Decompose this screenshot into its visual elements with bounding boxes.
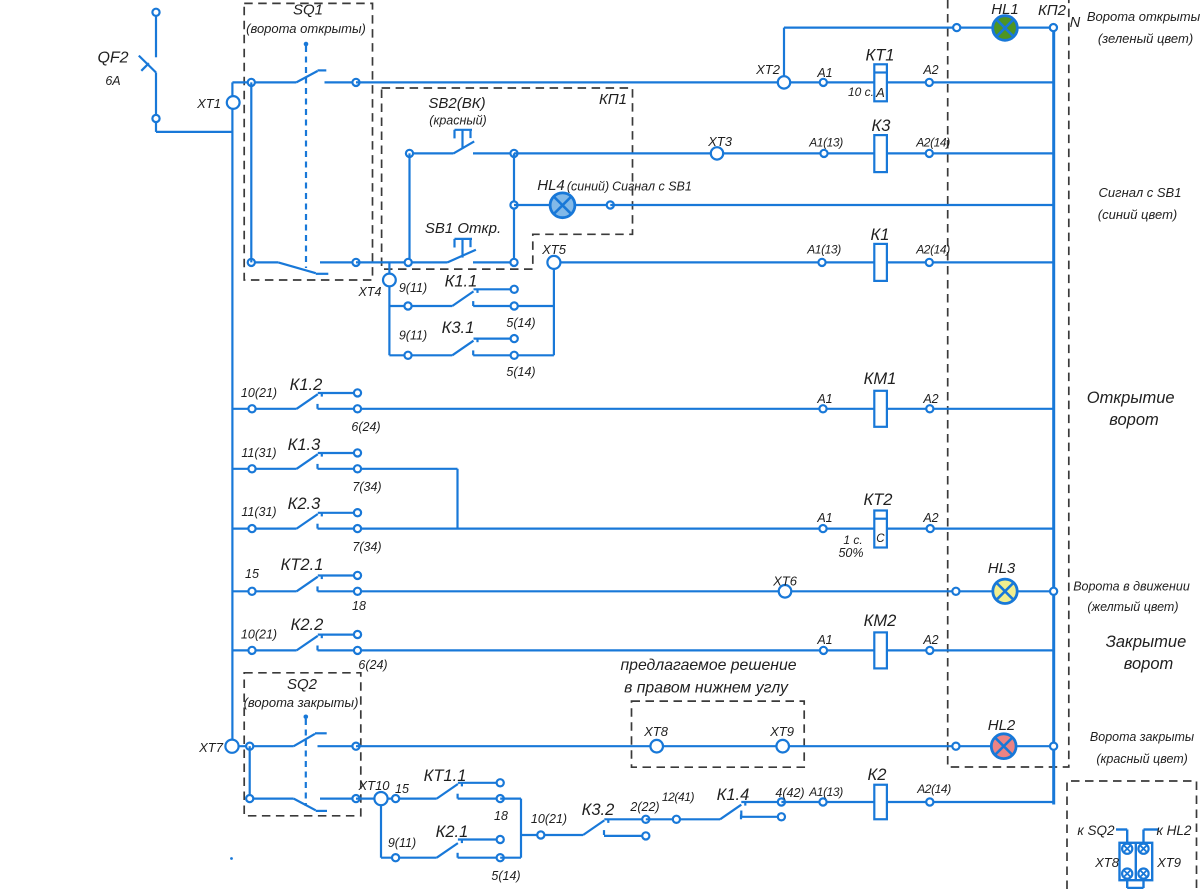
terminal XT7 <box>225 740 238 753</box>
svg-text:5(14): 5(14) <box>506 316 535 330</box>
svg-text:SQ2: SQ2 <box>287 676 318 693</box>
svg-text:(синий): (синий) <box>567 180 609 194</box>
relay coil K1 <box>874 244 887 281</box>
svg-text:К2.2: К2.2 <box>291 616 324 634</box>
svg-text:К2.1: К2.1 <box>436 823 469 841</box>
terminal XT3 <box>711 147 723 159</box>
wire XT5..K1..bus <box>560 261 1053 263</box>
svg-text:КТ1: КТ1 <box>866 47 895 65</box>
svg-text:(ворота открыты): (ворота открыты) <box>246 21 366 36</box>
contactor coil KM2 <box>820 647 827 654</box>
svg-text:A2: A2 <box>922 633 938 647</box>
svg-text:7(34): 7(34) <box>352 480 381 494</box>
svg-text:HL2: HL2 <box>988 717 1016 734</box>
wire XT3..K3..bus <box>723 152 1053 154</box>
wire HL4 to bus <box>610 204 1053 206</box>
svg-text:A2(14): A2(14) <box>915 243 950 257</box>
wire SB2 to XT3 <box>514 152 711 154</box>
svg-text:HL4: HL4 <box>537 177 565 194</box>
wire K1.3 down to row K2.3 <box>456 469 458 529</box>
breaker QF2 <box>155 16 157 57</box>
svg-text:XT9: XT9 <box>1156 855 1181 870</box>
svg-text:(красный цвет): (красный цвет) <box>1096 752 1188 766</box>
svg-text:XT8: XT8 <box>1094 855 1120 870</box>
wire XT9 to HL2 <box>789 745 1054 747</box>
svg-text:XT6: XT6 <box>772 574 798 589</box>
wire K1.4 to K2 coil <box>781 801 1053 803</box>
SQ1 dashed enclosure <box>244 3 372 280</box>
svg-text:6(24): 6(24) <box>351 420 380 434</box>
svg-text:Ворота в движении: Ворота в движении <box>1073 580 1190 594</box>
svg-text:A1(13): A1(13) <box>806 243 841 257</box>
node on bus row8 <box>1050 588 1057 595</box>
svg-text:A2(14): A2(14) <box>915 136 950 150</box>
svg-text:Сигнал с SB1: Сигнал с SB1 <box>612 180 692 194</box>
svg-text:15: 15 <box>395 782 409 796</box>
svg-text:A1: A1 <box>816 392 832 406</box>
wire row1 to XT2 <box>356 81 778 83</box>
svg-text:к HL2: к HL2 <box>1157 823 1192 838</box>
svg-text:К3.2: К3.2 <box>582 801 615 819</box>
wire XT4 branch to K1.1 <box>389 305 408 307</box>
SQ1 actuator dot and mechanical link <box>304 42 309 47</box>
svg-text:18: 18 <box>494 809 508 823</box>
right vertical bus (N) <box>1052 31 1055 804</box>
contact K1.4 <box>720 805 741 820</box>
svg-text:7(34): 7(34) <box>352 540 381 554</box>
svg-text:К1: К1 <box>871 226 890 244</box>
svg-text:9(11): 9(11) <box>399 329 427 343</box>
wire K2.1 to right stub <box>500 857 521 859</box>
vertical joining SQ1 contacts <box>250 82 252 262</box>
svg-text:50%: 50% <box>838 546 863 560</box>
svg-text:Сигнал с SB1: Сигнал с SB1 <box>1099 185 1182 200</box>
svg-text:18: 18 <box>352 599 366 613</box>
terminal block XT8/XT9 detail <box>1120 843 1153 880</box>
wire XT10 to KT1.1 <box>388 797 437 799</box>
stray mark <box>230 857 233 860</box>
relay coil K2 <box>874 785 887 820</box>
contact K3.1 <box>408 354 452 356</box>
svg-text:К2: К2 <box>868 766 887 784</box>
svg-text:SB1 Откр.: SB1 Откр. <box>425 220 501 237</box>
svg-text:6А: 6А <box>105 74 120 88</box>
svg-text:A1: A1 <box>816 633 832 647</box>
bottom U link <box>1126 880 1128 888</box>
svg-text:(красный): (красный) <box>429 114 486 128</box>
svg-text:A1(13): A1(13) <box>808 785 843 799</box>
svg-text:XT1: XT1 <box>196 96 221 111</box>
svg-text:15: 15 <box>245 567 259 581</box>
svg-text:К1.3: К1.3 <box>288 436 321 454</box>
svg-text:A2: A2 <box>922 392 938 406</box>
wire XT8 to XT9 <box>663 745 776 747</box>
svg-text:КТ1.1: КТ1.1 <box>424 767 467 785</box>
svg-text:(зеленый цвет): (зеленый цвет) <box>1098 31 1193 46</box>
svg-text:XT8: XT8 <box>643 724 669 739</box>
svg-text:КМ1: КМ1 <box>864 370 897 388</box>
wire row1 XT2..KT1..bus <box>790 81 1053 83</box>
terminal XT4 stub <box>388 262 390 355</box>
svg-text:С: С <box>876 533 885 545</box>
contact K2.2 <box>232 649 296 651</box>
svg-text:XT7: XT7 <box>198 740 224 755</box>
svg-text:К1.1: К1.1 <box>445 273 478 291</box>
svg-text:КТ2.1: КТ2.1 <box>281 556 324 574</box>
svg-text:10(21): 10(21) <box>241 628 277 642</box>
lead к HL2 <box>1144 828 1159 830</box>
svg-text:SB2(ВК): SB2(ВК) <box>428 95 485 112</box>
wire SB2 right leg down through HL4 <box>513 153 515 262</box>
wire SQ2 vertical joining contacts <box>249 746 251 798</box>
svg-text:предлагаемое решение: предлагаемое решение <box>620 657 796 674</box>
svg-text:К1.4: К1.4 <box>717 786 750 804</box>
svg-text:(ворота закрыты): (ворота закрыты) <box>244 695 359 710</box>
svg-text:10(21): 10(21) <box>531 812 567 826</box>
svg-text:10 с.: 10 с. <box>848 85 874 99</box>
SQ2 actuator dot and mechanical link <box>304 715 309 720</box>
svg-text:5(14): 5(14) <box>506 365 535 379</box>
time relay coil KT1 <box>874 64 887 101</box>
contact K1.3 <box>232 468 296 470</box>
svg-text:К3: К3 <box>872 117 892 135</box>
svg-text:A1: A1 <box>816 511 832 525</box>
svg-text:10(21): 10(21) <box>241 386 277 400</box>
XT8 XT9 proposed-solution dashed enclosure <box>632 701 805 767</box>
contactor coil KM1 <box>819 405 826 412</box>
svg-text:9(11): 9(11) <box>399 281 427 295</box>
node on bus row10 <box>1050 743 1057 750</box>
wire XT5 down bus <box>553 269 555 355</box>
svg-text:HL3: HL3 <box>988 560 1016 577</box>
contact KT2.1 <box>232 590 296 592</box>
terminal XT5 <box>547 256 560 269</box>
svg-text:HL1: HL1 <box>991 1 1019 18</box>
svg-text:КП1: КП1 <box>599 91 627 108</box>
svg-text:6(24): 6(24) <box>358 658 387 672</box>
svg-text:КМ2: КМ2 <box>864 612 897 630</box>
svg-text:Ворота открыты: Ворота открыты <box>1087 9 1200 24</box>
terminal XT8 <box>650 740 663 753</box>
contact K2.3 <box>232 527 296 529</box>
svg-text:XT4: XT4 <box>358 285 382 299</box>
svg-text:XT3: XT3 <box>707 134 733 149</box>
svg-text:4(42): 4(42) <box>775 786 804 800</box>
svg-text:A2: A2 <box>922 511 938 525</box>
node into КП2 panel <box>953 24 960 31</box>
svg-text:9(11): 9(11) <box>388 836 416 850</box>
lamp HL2 (red) <box>991 734 1016 759</box>
wire QF2 to left bus <box>155 122 157 132</box>
svg-text:Открытие: Открытие <box>1087 389 1175 407</box>
lead к SQ2 <box>1116 828 1127 830</box>
svg-text:A2: A2 <box>922 63 938 77</box>
svg-text:К3.1: К3.1 <box>442 319 475 337</box>
lamp HL3 (yellow) <box>993 579 1017 603</box>
left vertical bus wire <box>231 82 233 739</box>
svg-text:ворот: ворот <box>1124 655 1174 673</box>
svg-text:(желтый цвет): (желтый цвет) <box>1087 600 1178 614</box>
wire K3.2 to K1.4 <box>646 818 720 820</box>
svg-text:(синий цвет): (синий цвет) <box>1098 207 1177 222</box>
svg-text:КП2: КП2 <box>1038 2 1067 19</box>
terminal XT1 <box>227 96 240 109</box>
limit switch SQ1 bottom contact <box>278 262 316 273</box>
svg-text:Закрытие: Закрытие <box>1106 633 1187 651</box>
terminal XT10 <box>356 797 374 799</box>
pushbutton SB1 Откр. <box>448 250 476 263</box>
contact K1.2 <box>232 408 296 410</box>
time relay coil KT2 <box>819 525 826 532</box>
limit switch SQ2 top contact <box>239 745 294 747</box>
junction node (SB2 branch) <box>405 259 412 266</box>
wire row10 to XT8 <box>356 745 650 747</box>
relay coil K3 <box>874 135 887 172</box>
node КП2 / N <box>1050 24 1057 31</box>
wire XT4 branch to K3.1 <box>389 354 408 356</box>
svg-text:1 с.: 1 с. <box>843 533 862 547</box>
wire SB2 left leg down <box>408 153 410 262</box>
wire row4 left <box>251 261 278 263</box>
svg-text:A1: A1 <box>816 66 832 80</box>
КП2 dashed enclosure <box>948 0 1069 767</box>
svg-text:Ворота закрыты: Ворота закрыты <box>1090 730 1194 744</box>
svg-text:N: N <box>1070 15 1081 31</box>
wire KT1.1 to right stub <box>500 797 521 799</box>
terminal XT2 <box>778 76 790 88</box>
terminal XT9 <box>776 740 789 753</box>
pushbutton SB2(ВК) <box>410 152 454 154</box>
svg-text:ворот: ворот <box>1109 411 1159 429</box>
svg-text:A1(13): A1(13) <box>808 136 843 150</box>
contact K2.1 <box>437 843 458 858</box>
svg-text:К2.3: К2.3 <box>288 495 321 513</box>
svg-text:XT9: XT9 <box>769 724 794 739</box>
svg-text:XT2: XT2 <box>755 62 781 77</box>
SQ2 dashed enclosure <box>244 673 361 816</box>
svg-text:к SQ2: к SQ2 <box>1077 823 1115 838</box>
wire parallel block to K3.2 <box>521 834 583 836</box>
lamp HL1 (green) <box>993 16 1018 41</box>
КП1 dashed enclosure <box>382 88 633 269</box>
bottom-right solution dashed enclosure <box>1067 781 1197 889</box>
svg-text:A2(14): A2(14) <box>916 782 951 796</box>
terminal XT6 <box>779 585 792 598</box>
svg-text:2(22): 2(22) <box>629 800 659 814</box>
wire XT6 to HL3 <box>791 590 1053 592</box>
svg-text:11(31): 11(31) <box>241 505 276 519</box>
svg-text:в правом нижнем углу: в правом нижнем углу <box>624 680 789 697</box>
svg-text:11(31): 11(31) <box>241 446 276 460</box>
svg-text:A: A <box>875 85 885 100</box>
svg-text:12(41): 12(41) <box>662 790 695 804</box>
lamp HL4 (blue) <box>510 201 517 208</box>
svg-text:QF2: QF2 <box>97 50 128 67</box>
contact K3.2 <box>583 820 604 835</box>
svg-text:XT5: XT5 <box>541 242 567 257</box>
svg-text:5(14): 5(14) <box>491 869 520 883</box>
svg-text:КТ2: КТ2 <box>864 491 893 509</box>
wire row4 to SB1 <box>356 261 448 263</box>
svg-text:К1.2: К1.2 <box>290 376 323 394</box>
limit switch SQ2 bottom contact <box>250 797 294 799</box>
svg-text:XT10: XT10 <box>357 778 390 793</box>
wire row1 left <box>232 81 296 83</box>
contact KT1.1 <box>437 784 458 799</box>
limit switch SQ1 top contact <box>296 71 317 82</box>
contact K1.1 <box>408 305 452 307</box>
wire XT2 up to HL1 branch <box>783 28 785 77</box>
wire XT10 down to K2.1 <box>380 805 382 858</box>
svg-text:SQ1: SQ1 <box>293 2 323 19</box>
